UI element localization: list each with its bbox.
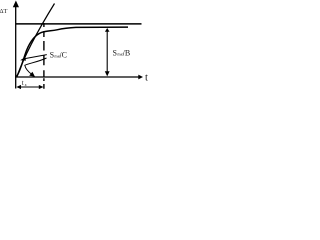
svg-text:S: S [50, 51, 54, 60]
x-axis [15, 75, 143, 80]
S/B dimension arrow [105, 28, 110, 76]
svg-text:/B: /B [123, 49, 131, 58]
y-axis [13, 1, 19, 89]
vertical dashed line at tau [43, 23, 45, 77]
annotation arrow B to curve [25, 58, 47, 77]
curve (thermogram) [17, 27, 129, 76]
tangent line [17, 4, 55, 77]
svg-text:t: t [145, 73, 148, 84]
bottom dimension arrow (tau interval) [16, 85, 43, 89]
svg-text:S: S [113, 49, 117, 58]
svg-text:a: a [25, 83, 27, 87]
svg-text:t: t [22, 79, 24, 87]
asymptote line [16, 23, 142, 25]
annotation arrow A to tangent [20, 55, 47, 61]
svg-text:ΔT: ΔT [0, 8, 8, 15]
dashed line below axis [43, 78, 45, 89]
svg-text:/C: /C [59, 51, 67, 60]
